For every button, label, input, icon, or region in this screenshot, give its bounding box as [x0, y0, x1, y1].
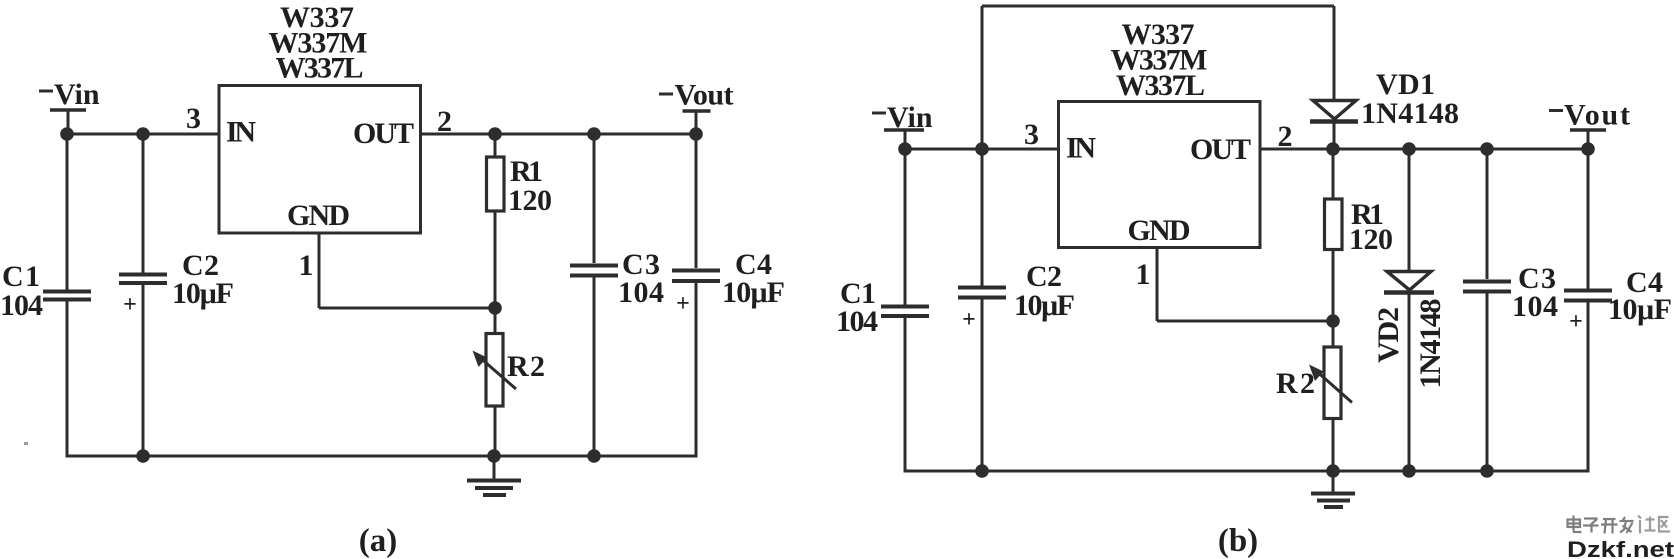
svg-text:R2: R2 [1276, 367, 1315, 400]
svg-text:(a): (a) [359, 523, 397, 559]
svg-text:+: + [676, 291, 690, 317]
svg-text:10μF: 10μF [1608, 293, 1672, 326]
svg-text:Vout: Vout [1564, 99, 1630, 132]
svg-text:Vin: Vin [54, 78, 100, 111]
svg-text:2: 2 [1278, 120, 1293, 153]
svg-text:120: 120 [508, 184, 552, 217]
svg-text:Vin: Vin [887, 101, 933, 134]
svg-text:+: + [123, 292, 137, 318]
svg-text:10μF: 10μF [172, 277, 234, 310]
svg-text:IN: IN [226, 116, 256, 149]
svg-text:GND: GND [1128, 214, 1191, 247]
svg-text:OUT: OUT [353, 117, 414, 150]
svg-text:Vout: Vout [675, 79, 734, 112]
svg-text:120: 120 [1349, 223, 1393, 256]
svg-text:104: 104 [618, 276, 664, 309]
svg-text:3: 3 [1024, 118, 1039, 151]
svg-text:104: 104 [836, 305, 878, 338]
svg-text:1N4148: 1N4148 [1361, 97, 1459, 130]
svg-text:R2: R2 [507, 350, 545, 383]
svg-text:W337L: W337L [276, 52, 364, 85]
svg-text:OUT: OUT [1190, 133, 1251, 166]
svg-text:104: 104 [1512, 290, 1558, 323]
svg-text:10μF: 10μF [1014, 289, 1075, 322]
svg-text:10μF: 10μF [722, 276, 785, 309]
svg-text:Dzkf.net: Dzkf.net [1567, 537, 1674, 559]
svg-text:+: + [962, 307, 976, 333]
svg-text:3: 3 [186, 102, 201, 135]
svg-text:104: 104 [0, 289, 43, 322]
svg-text:1: 1 [1136, 258, 1151, 291]
svg-text:2: 2 [437, 105, 452, 138]
svg-text:W337L: W337L [1116, 69, 1205, 102]
svg-text:1: 1 [299, 249, 314, 282]
svg-text:GND: GND [287, 199, 350, 232]
svg-text:+: + [1569, 309, 1583, 335]
svg-text:1N4148: 1N4148 [1414, 299, 1447, 389]
svg-text:VD2: VD2 [1372, 307, 1405, 363]
svg-text:(b): (b) [1218, 523, 1258, 559]
svg-text:IN: IN [1066, 132, 1096, 165]
